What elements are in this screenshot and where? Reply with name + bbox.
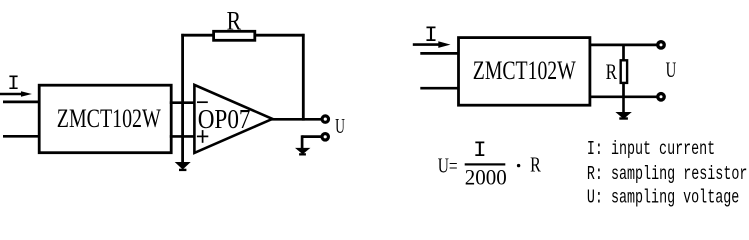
- input arrow (left): [0, 91, 32, 97]
- svg-text:R: R: [530, 152, 541, 176]
- ground (output return): [295, 148, 310, 156]
- svg-text:2000: 2000: [465, 164, 507, 189]
- svg-text:ZMCT102W: ZMCT102W: [473, 55, 577, 85]
- wire input bottom (right): [420, 87, 460, 90]
- resistor R (sampling): [621, 60, 627, 83]
- svg-text:R: R: [227, 6, 242, 36]
- resistor R (feedback): [214, 31, 255, 40]
- wire bottom (right circuit): [589, 95, 657, 98]
- wire input top (left): [3, 101, 41, 104]
- wire stub to inverting input: [170, 101, 195, 104]
- svg-text:ZMCT102W: ZMCT102W: [57, 103, 162, 133]
- svg-text:R: sampling resistor: R: sampling resistor: [587, 163, 748, 185]
- pin marker plus: [197, 130, 208, 143]
- svg-text:U=: U=: [438, 153, 458, 177]
- wire input top (right): [420, 52, 460, 55]
- ground (right circuit): [615, 112, 631, 120]
- formula fraction bar: [465, 163, 506, 165]
- wire stub to non-inverting input: [170, 135, 195, 138]
- wire output return: [302, 135, 322, 149]
- svg-text:I: I: [473, 137, 486, 163]
- wire top (right circuit): [589, 44, 657, 47]
- svg-text:I: I: [7, 73, 19, 96]
- svg-text:R: R: [606, 59, 618, 84]
- wire resistor lead: [622, 45, 625, 97]
- terminal right top: [658, 42, 664, 48]
- wire feedback right vertical: [302, 34, 305, 121]
- transformer U3 ZMCT102W box (right): [459, 38, 590, 106]
- input arrow (right): [413, 41, 451, 48]
- svg-text:U: U: [666, 57, 677, 82]
- svg-text:U: sampling voltage: U: sampling voltage: [587, 186, 739, 207]
- op-amp U2 OP07: [194, 85, 272, 153]
- terminal output bottom: [322, 134, 328, 140]
- ground (under feedback line): [175, 162, 191, 171]
- svg-text:OP07: OP07: [198, 104, 251, 134]
- wire feedback top: [181, 34, 304, 37]
- svg-text:I: input current: I: input current: [587, 138, 715, 160]
- pin marker minus: [197, 101, 208, 103]
- svg-text:U: U: [335, 114, 345, 138]
- terminal right bottom: [658, 94, 664, 100]
- wire feedback left vertical: [181, 34, 184, 163]
- wire input bottom (left): [3, 135, 41, 138]
- terminal output top: [322, 116, 328, 122]
- wire output: [271, 118, 322, 121]
- formula dot operator: [517, 164, 520, 167]
- transformer U1 ZMCT102W box (left): [39, 85, 171, 153]
- wire ground stem (right): [622, 97, 625, 113]
